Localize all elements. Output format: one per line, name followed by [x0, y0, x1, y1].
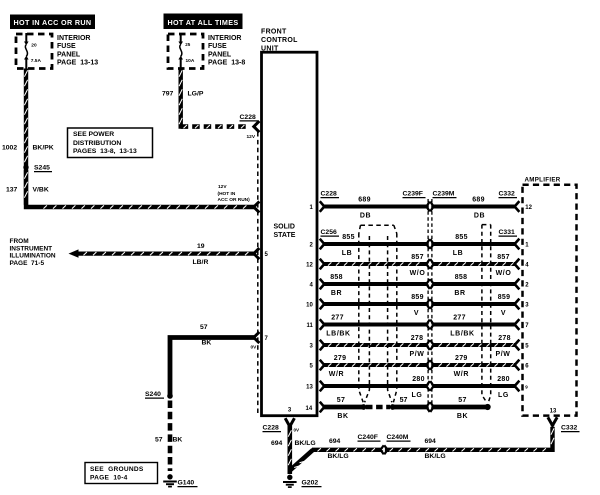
- svg-text:C240M: C240M: [387, 434, 409, 441]
- svg-text:13: 13: [550, 409, 557, 415]
- fork at amplifier row 2: [515, 240, 519, 249]
- svg-text:10A: 10A: [186, 58, 195, 64]
- connector fork at FCU pin 3 bottom: [286, 420, 294, 427]
- svg-text:S240: S240: [145, 391, 161, 398]
- svg-text:0V: 0V: [294, 428, 301, 433]
- inline connector C239 row 1: [429, 201, 431, 212]
- dashed shield leg D: [393, 234, 396, 403]
- svg-text:859: 859: [498, 294, 511, 301]
- svg-text:INSTRUMENT: INSTRUMENT: [10, 245, 53, 252]
- svg-text:S245: S245: [34, 165, 50, 172]
- svg-text:SEE POWER: SEE POWER: [73, 131, 114, 138]
- svg-text:13: 13: [306, 384, 313, 390]
- svg-text:PAGE 10-4: PAGE 10-4: [90, 475, 128, 482]
- svg-text:ILLUMINATION: ILLUMINATION: [10, 253, 56, 260]
- svg-text:C239F: C239F: [403, 191, 423, 198]
- wire 280 LG row 9 left half: [323, 384, 428, 388]
- svg-text:C228: C228: [263, 425, 279, 432]
- dashed shield leg B: [365, 236, 370, 402]
- fork at FCU pin row 10: [321, 403, 325, 412]
- splice dot row 10 mid: [390, 404, 396, 410]
- svg-text:10: 10: [306, 302, 313, 308]
- svg-text:859: 859: [411, 294, 424, 301]
- svg-text:C228: C228: [321, 191, 337, 198]
- svg-text:LB/BK: LB/BK: [326, 330, 350, 337]
- fork at FCU pin row 8: [321, 361, 325, 370]
- svg-text:BK/LG: BK/LG: [328, 453, 349, 460]
- dashed shield leg C: [388, 236, 392, 402]
- svg-text:280: 280: [412, 376, 425, 383]
- inline connector C240 pair: [383, 445, 385, 455]
- fork at FCU pin row 4: [321, 280, 325, 289]
- svg-text:BK: BK: [202, 340, 212, 347]
- svg-text:57: 57: [337, 397, 345, 404]
- wire 694 BK/LG horizontal run: [312, 427, 553, 450]
- wire 278 P/W row 7 right half: [433, 343, 515, 347]
- fork at FCU pin row 3: [321, 260, 325, 269]
- wire 857 W/O row 3 right half: [433, 262, 515, 266]
- svg-text:LG: LG: [498, 392, 509, 399]
- svg-text:BK/PK: BK/PK: [33, 145, 54, 152]
- fork at amplifier row 5: [515, 300, 519, 309]
- svg-text:858: 858: [330, 274, 343, 281]
- svg-text:C228: C228: [240, 114, 256, 121]
- svg-text:694: 694: [271, 440, 283, 447]
- svg-text:277: 277: [331, 315, 344, 322]
- svg-text:279: 279: [455, 355, 468, 362]
- svg-text:PANEL: PANEL: [208, 51, 232, 58]
- svg-text:PAGE 13-13: PAGE 13-13: [57, 60, 98, 67]
- fork at amplifier row 6: [515, 320, 519, 329]
- interior fuse panel box 1 (dashed): [16, 34, 52, 69]
- svg-text:BK/LG: BK/LG: [425, 453, 446, 460]
- wire 57 dashed to ground: [168, 401, 173, 472]
- wire 694 vertical up to C332 pin 13: [551, 428, 554, 444]
- fork at amplifier row 9: [515, 382, 519, 391]
- svg-text:G140: G140: [178, 480, 195, 487]
- svg-text:BR: BR: [454, 290, 465, 297]
- svg-text:SOLID: SOLID: [274, 224, 295, 231]
- power bus label HOT IN ACC OR RUN: [10, 15, 95, 30]
- svg-text:PAGE 13-8: PAGE 13-8: [208, 60, 245, 67]
- svg-text:ACC OR RUN): ACC OR RUN): [218, 197, 251, 203]
- svg-text:SEE GROUNDS: SEE GROUNDS: [90, 466, 144, 473]
- fork at FCU pin row 5: [321, 300, 325, 309]
- svg-text:C240F: C240F: [358, 434, 378, 441]
- wire 57 BK row 10 left half: [323, 405, 364, 410]
- splice S240: [167, 393, 173, 399]
- svg-text:P/W: P/W: [409, 351, 424, 358]
- wire 57 BK from pin 7: [170, 338, 255, 397]
- splice dot row 10 right end: [485, 404, 491, 410]
- svg-text:LB: LB: [453, 250, 464, 257]
- svg-text:INTERIOR: INTERIOR: [208, 35, 241, 42]
- svg-text:BK: BK: [337, 413, 348, 420]
- svg-text:14: 14: [306, 406, 313, 412]
- svg-text:12: 12: [525, 205, 532, 211]
- svg-text:FRONT: FRONT: [261, 29, 287, 36]
- svg-text:W/O: W/O: [496, 270, 512, 277]
- wire 279 W/R row 8 left half: [323, 363, 428, 367]
- dashed shield leg F: [488, 225, 490, 403]
- svg-text:137: 137: [6, 187, 18, 194]
- inline connector C239 row 2: [429, 239, 431, 250]
- svg-text:LG: LG: [412, 392, 423, 399]
- fork at FCU pin row 1: [321, 202, 325, 211]
- svg-text:LB: LB: [342, 250, 353, 257]
- svg-text:858: 858: [455, 274, 468, 281]
- svg-text:DISTRIBUTION: DISTRIBUTION: [73, 140, 121, 147]
- svg-text:V: V: [414, 310, 419, 317]
- svg-text:UNIT: UNIT: [261, 46, 279, 53]
- ground G140: [167, 474, 172, 479]
- svg-text:278: 278: [411, 335, 424, 342]
- svg-text:HOT AT ALL TIMES: HOT AT ALL TIMES: [167, 18, 238, 27]
- svg-text:BR: BR: [331, 290, 342, 297]
- wire 855 LB row 2 left half: [323, 242, 428, 246]
- wire 857 W/O row 3 left half: [323, 262, 428, 266]
- svg-text:STATE: STATE: [274, 232, 296, 239]
- svg-text:C256: C256: [321, 229, 337, 236]
- connector C239 dashed lines: [428, 199, 432, 411]
- svg-text:57: 57: [200, 324, 208, 331]
- svg-text:BK: BK: [457, 413, 468, 420]
- dashed shield leg A: [359, 234, 363, 403]
- svg-text:G202: G202: [302, 480, 319, 487]
- svg-text:W/R: W/R: [329, 371, 344, 378]
- connector fork at FCU pin 6: [254, 203, 258, 212]
- fork at FCU pin row 9: [321, 382, 325, 391]
- svg-text:11: 11: [306, 323, 313, 329]
- fork at amplifier row 4: [515, 280, 519, 289]
- inline connector C239 row 6: [429, 319, 431, 330]
- svg-text:FROM: FROM: [10, 238, 29, 245]
- wire 858 BR row 4 right half: [433, 282, 515, 286]
- svg-text:0V: 0V: [251, 345, 258, 351]
- wire 858 BR row 4 left half: [323, 282, 428, 286]
- svg-text:PANEL: PANEL: [57, 51, 81, 58]
- power bus label HOT AT ALL TIMES: [164, 14, 243, 30]
- fork at FCU pin row 2: [321, 240, 325, 249]
- svg-text:689: 689: [472, 197, 485, 204]
- amplifier box (dashed): [523, 185, 577, 416]
- wire 694 BK/LG vertical to ground: [287, 426, 292, 475]
- wire 855 LB row 2 right half: [433, 242, 515, 246]
- svg-text:LB/BK: LB/BK: [450, 330, 474, 337]
- connector C228 dashed line along FCU left edge: [257, 132, 259, 415]
- fork at FCU pin row 6: [321, 320, 325, 329]
- wire 797 dashed run to C228 pin 8: [181, 124, 248, 129]
- svg-text:BK: BK: [173, 437, 183, 444]
- svg-text:278: 278: [498, 335, 511, 342]
- dashed shield staple left: [361, 224, 394, 226]
- fork at amplifier row 7: [515, 341, 519, 350]
- svg-text:20: 20: [31, 43, 37, 49]
- svg-text:12V: 12V: [247, 134, 256, 140]
- svg-text:25: 25: [185, 42, 191, 47]
- splice dot row 10 left: [361, 404, 367, 410]
- splice S245: [23, 165, 28, 170]
- inline connector C239 row 9: [429, 381, 431, 392]
- svg-text:DB: DB: [360, 212, 371, 219]
- svg-text:280: 280: [497, 376, 510, 383]
- dashed shield leg E: [482, 225, 487, 403]
- fork at amplifier row 1: [515, 202, 519, 211]
- svg-text:V/BK: V/BK: [33, 187, 49, 194]
- inline connector C239 row 8: [429, 360, 431, 371]
- wire 689 DB row 1 left half: [323, 204, 428, 208]
- svg-text:PAGES 13-8, 13-13: PAGES 13-8, 13-13: [73, 148, 137, 155]
- front control unit box: [262, 52, 318, 416]
- wire 19 LB/R: [78, 251, 255, 255]
- svg-text:(HOT IN: (HOT IN: [218, 191, 236, 197]
- fork at FCU pin row 7: [321, 341, 325, 350]
- svg-text:57: 57: [155, 437, 163, 444]
- svg-text:FUSE: FUSE: [57, 43, 76, 50]
- wire 694 branch diagonal: [290, 450, 313, 471]
- svg-text:57: 57: [458, 397, 466, 404]
- connector fork at amplifier pin 13: [549, 419, 557, 426]
- svg-text:DB: DB: [474, 212, 485, 219]
- svg-text:12: 12: [306, 262, 313, 268]
- svg-text:W/O: W/O: [410, 270, 426, 277]
- svg-text:19: 19: [197, 243, 205, 250]
- wire 689 DB row 1 right half: [433, 204, 515, 208]
- interior fuse panel box 2 (dashed): [168, 34, 203, 69]
- wire 277 LB/BK row 6 left half: [323, 322, 428, 326]
- svg-text:694: 694: [425, 438, 437, 445]
- fork at amplifier row 3: [515, 260, 519, 269]
- svg-text:1002: 1002: [2, 145, 17, 152]
- svg-text:P/W: P/W: [495, 351, 510, 358]
- svg-text:12V: 12V: [218, 184, 227, 190]
- svg-text:857: 857: [497, 254, 510, 261]
- inline connector C239 row 4: [429, 279, 431, 290]
- svg-text:689: 689: [358, 197, 371, 204]
- svg-text:CONTROL: CONTROL: [261, 37, 298, 44]
- wire 279 W/R row 8 right half: [433, 363, 515, 367]
- svg-text:797: 797: [162, 91, 174, 98]
- connector fork at FCU pin 7: [254, 333, 258, 342]
- svg-text:C331: C331: [499, 229, 515, 236]
- wire 859 V row 5 left half: [323, 302, 428, 306]
- svg-text:C332: C332: [499, 191, 515, 198]
- svg-text:57: 57: [400, 397, 408, 404]
- svg-text:PAGE 71-5: PAGE 71-5: [10, 260, 45, 267]
- wire 1002 BK/PK vertical: [24, 69, 28, 205]
- svg-text:857: 857: [411, 254, 424, 261]
- svg-text:C239M: C239M: [433, 191, 455, 198]
- svg-text:HOT IN ACC OR RUN: HOT IN ACC OR RUN: [14, 18, 92, 27]
- svg-text:277: 277: [453, 315, 466, 322]
- note box SEE POWER DISTRIBUTION: [68, 128, 153, 158]
- svg-text:694: 694: [329, 438, 341, 445]
- note box SEE GROUNDS: [85, 463, 158, 484]
- dashed shield staple right: [482, 224, 491, 226]
- inline connector C239 row 7: [429, 340, 431, 351]
- connector fork at FCU pin 8: [254, 122, 258, 131]
- svg-text:FUSE: FUSE: [208, 43, 227, 50]
- svg-text:LG/P: LG/P: [188, 91, 204, 98]
- svg-text:AMPLIFIER: AMPLIFIER: [525, 177, 561, 184]
- ground G202: [287, 475, 292, 480]
- connector fork at FCU pin 5: [254, 249, 258, 258]
- svg-text:855: 855: [342, 234, 355, 241]
- wire 137 vertical + horizontal to pin 6: [26, 170, 255, 207]
- wire 859 V row 5 right half: [433, 302, 515, 306]
- svg-text:C332: C332: [561, 425, 577, 432]
- wire 57 BK row 10 right half: [433, 405, 488, 410]
- svg-text:855: 855: [455, 234, 468, 241]
- fuse F25 10A symbol: [180, 33, 182, 43]
- wire 280 LG row 9 right half: [433, 384, 515, 388]
- svg-text:7.5A: 7.5A: [31, 58, 42, 64]
- arrow from instrument illumination: [69, 249, 79, 257]
- svg-text:LB/R: LB/R: [193, 259, 209, 266]
- svg-text:279: 279: [334, 355, 347, 362]
- inline connector C239 row 5: [429, 299, 431, 310]
- inline connector C239 row 3: [429, 259, 431, 270]
- fuse F20 7.5A symbol: [25, 33, 27, 43]
- wire 797 LG/P vertical: [178, 69, 182, 129]
- wire 277 LB/BK row 6 right half: [433, 322, 515, 326]
- svg-text:INTERIOR: INTERIOR: [57, 35, 90, 42]
- inline connector C239 row 10: [429, 402, 431, 413]
- fork at amplifier row 8: [515, 361, 519, 370]
- wire 278 P/W row 7 left half: [323, 343, 428, 347]
- svg-text:BK/LG: BK/LG: [295, 440, 316, 447]
- svg-text:V: V: [501, 310, 506, 317]
- svg-text:W/R: W/R: [454, 371, 469, 378]
